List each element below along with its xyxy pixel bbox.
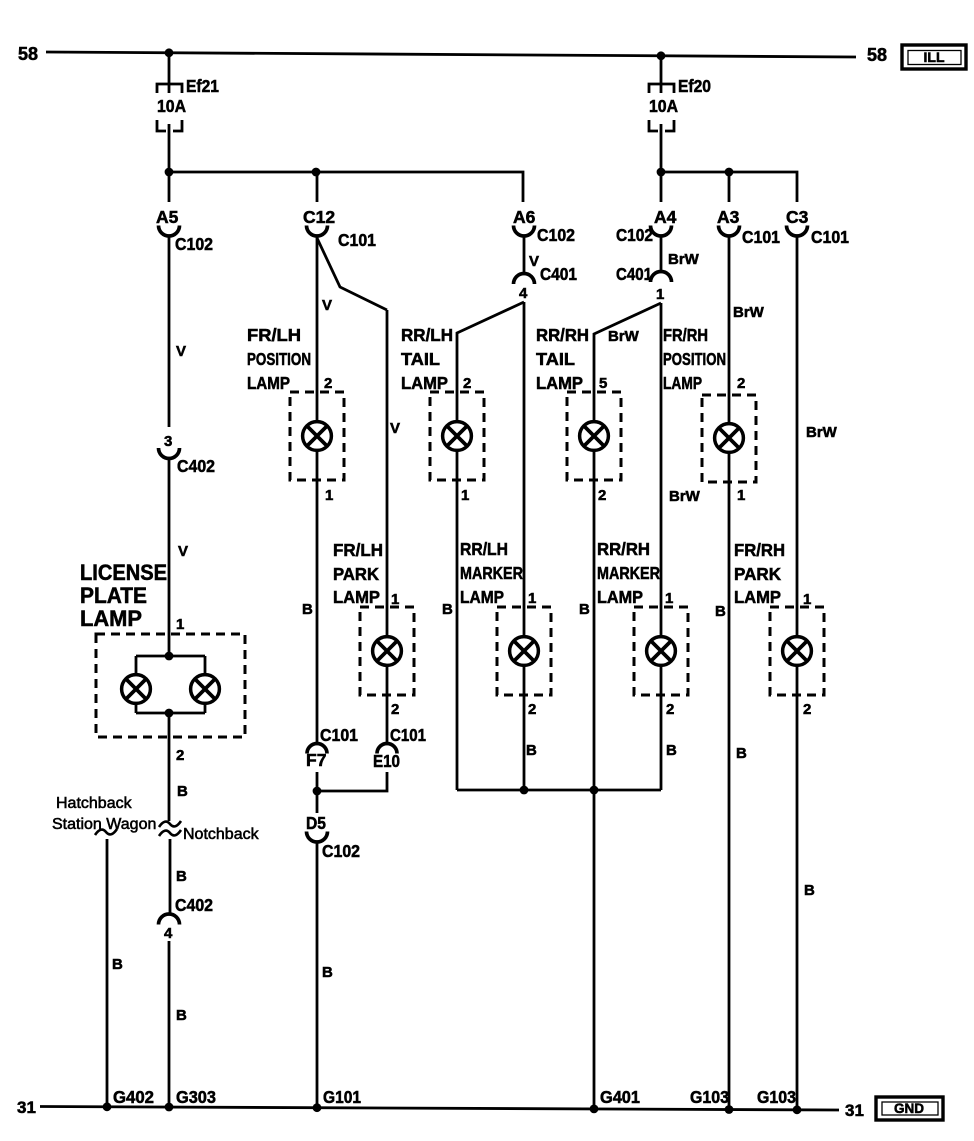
svg-text:E10: E10: [373, 751, 400, 771]
svg-text:A4: A4: [654, 207, 677, 227]
connector D5 C102: [306, 813, 360, 861]
lamp RR/LH MARKER LAMP: [497, 607, 551, 695]
junction bus/A5: [165, 168, 174, 177]
svg-text:10A: 10A: [157, 96, 186, 116]
svg-text:BrW: BrW: [669, 488, 701, 505]
lamp LICENSE PLATE LAMP label: [80, 560, 167, 631]
svg-text:BrW: BrW: [668, 251, 700, 268]
wire stub to C12: [316, 172, 319, 202]
svg-text:FR/RH: FR/RH: [663, 325, 708, 345]
lamp FR/LH PARK LAMP label: [333, 540, 383, 607]
svg-text:MARKER: MARKER: [460, 563, 523, 583]
svg-text:1: 1: [391, 591, 399, 608]
svg-text:C12: C12: [303, 207, 335, 227]
junction bus/G401 feed: [590, 786, 599, 795]
svg-text:V: V: [390, 420, 400, 437]
svg-text:LAMP: LAMP: [536, 373, 583, 393]
svg-text:POSITION: POSITION: [663, 349, 726, 369]
wire BrW from A3 to FR/RH position lamp: [728, 236, 731, 424]
svg-text:F7: F7: [306, 750, 326, 770]
svg-text:B: B: [715, 603, 726, 620]
wire B from RR/RH tail lamp: [593, 450, 596, 790]
ground G303: [165, 1087, 217, 1111]
junction bus/A3: [725, 168, 734, 177]
net box ILL: [902, 45, 966, 69]
svg-text:G103: G103: [690, 1087, 729, 1107]
svg-text:1: 1: [665, 590, 673, 607]
svg-text:4: 4: [519, 285, 528, 302]
svg-text:2: 2: [528, 701, 536, 718]
svg-text:A6: A6: [513, 207, 536, 227]
wire B from RR/RH marker lamp: [660, 665, 663, 790]
svg-text:B: B: [176, 868, 187, 885]
svg-text:1: 1: [656, 286, 664, 303]
wire bus right from Ef20: [661, 172, 797, 202]
svg-text:MARKER: MARKER: [597, 563, 660, 583]
svg-text:PARK: PARK: [734, 564, 781, 584]
lamp FR/RH PARK LAMP label: [734, 540, 785, 607]
svg-text:D5: D5: [306, 813, 326, 833]
svg-text:2: 2: [666, 701, 674, 718]
junction license lamp bottom: [165, 709, 174, 718]
svg-text:FR/LH: FR/LH: [333, 540, 383, 560]
svg-text:G401: G401: [600, 1087, 640, 1107]
wire stub to A4: [660, 172, 663, 202]
svg-text:2: 2: [598, 487, 606, 504]
lamp RR/LH TAIL LAMP label: [401, 325, 453, 393]
wire stub to A3: [728, 172, 731, 202]
lamp RR/LH MARKER LAMP label: [460, 539, 523, 607]
svg-text:2: 2: [737, 375, 745, 392]
connector A3 C101: [717, 207, 780, 247]
svg-text:G303: G303: [176, 1087, 216, 1107]
svg-text:PLATE: PLATE: [80, 583, 147, 608]
svg-text:Ef21: Ef21: [186, 76, 219, 96]
wire V from C12 to FR/LH position lamp: [316, 236, 319, 422]
wire bus 58 top rail: [46, 52, 856, 57]
wire V from A5: [168, 236, 171, 427]
svg-text:2: 2: [391, 701, 399, 718]
svg-text:B: B: [177, 783, 188, 800]
lamp FR/RH POSITION LAMP: [702, 395, 756, 482]
svg-text:C102: C102: [175, 234, 213, 254]
junction license lamp top: [165, 652, 174, 661]
svg-text:31: 31: [845, 1101, 864, 1120]
connector A5 C102: [156, 207, 213, 254]
svg-text:LAMP: LAMP: [597, 587, 643, 607]
junction bus/C12: [312, 168, 321, 177]
wire BrW from C3 to FR/RH park lamp: [796, 236, 799, 637]
connector A4 C102 / C401 pin 1: [616, 207, 700, 303]
wire B from FR/RH position lamp to G103: [728, 452, 731, 1111]
svg-text:C101: C101: [390, 725, 426, 745]
svg-text:FR/LH: FR/LH: [247, 325, 301, 345]
svg-text:FR/RH: FR/RH: [734, 540, 785, 560]
svg-text:B: B: [302, 601, 313, 618]
svg-text:RR/RH: RR/RH: [597, 539, 650, 559]
wire from A6-4 to RR/LH tail lamp: [457, 302, 524, 422]
wire B from FR/LH position lamp: [316, 450, 319, 744]
svg-text:B: B: [176, 1007, 187, 1024]
svg-text:1: 1: [176, 616, 184, 633]
wire bus 31 ground rail: [40, 1107, 839, 1111]
svg-text:LAMP: LAMP: [247, 373, 290, 393]
svg-text:POSITION: POSITION: [247, 349, 311, 369]
svg-text:G103: G103: [757, 1087, 796, 1107]
connector C3 C101: [786, 207, 849, 247]
svg-text:C3: C3: [786, 207, 809, 227]
wire from FR/LH park lamp to E10: [386, 665, 389, 744]
svg-text:B: B: [112, 956, 123, 973]
svg-text:PARK: PARK: [333, 564, 379, 584]
junction F7/E10: [313, 787, 322, 796]
svg-text:ILL: ILL: [924, 49, 945, 65]
wire B to G101: [316, 842, 319, 1109]
svg-text:C402: C402: [175, 895, 213, 915]
svg-text:LICENSE: LICENSE: [80, 560, 167, 585]
wire from A4-1 to RR/RH tail lamp: [594, 303, 661, 422]
svg-text:RR/LH: RR/LH: [460, 539, 508, 559]
wire branch hatchback/wagon to G402: [106, 839, 109, 1110]
lamp FR/RH PARK LAMP: [770, 607, 824, 695]
svg-text:2: 2: [803, 701, 811, 718]
connector E10 C101: [373, 725, 426, 771]
svg-text:GND: GND: [894, 1101, 924, 1116]
svg-text:C401: C401: [540, 264, 577, 284]
fuse Ef21 10A: [157, 53, 219, 172]
svg-text:1: 1: [461, 487, 469, 504]
svg-text:LAMP: LAMP: [734, 587, 781, 607]
svg-text:2: 2: [176, 747, 184, 764]
lamp LICENSE PLATE LAMP (dual bulb): [96, 634, 245, 737]
svg-text:2: 2: [463, 375, 471, 392]
wire stub to A5: [168, 172, 171, 202]
svg-text:V: V: [529, 253, 539, 270]
svg-text:B: B: [666, 742, 677, 759]
wire V to license plate lamp: [168, 459, 171, 657]
lamp FR/LH POSITION LAMP label: [247, 325, 311, 393]
svg-text:LAMP: LAMP: [460, 587, 504, 607]
lamp RR/RH MARKER LAMP: [634, 607, 688, 695]
wire from A6-4 to RR/LH marker lamp: [523, 302, 526, 637]
svg-text:1: 1: [803, 591, 811, 608]
wire F7 down: [316, 772, 319, 813]
svg-text:31: 31: [17, 1098, 36, 1117]
lamp RR/RH MARKER LAMP label: [597, 539, 660, 607]
wire V branch C12 to FR/LH park lamp: [317, 238, 387, 310]
svg-text:RR/LH: RR/LH: [401, 325, 453, 345]
wire B to G303: [168, 941, 171, 1108]
svg-text:1: 1: [737, 487, 745, 504]
svg-text:C102: C102: [322, 841, 360, 861]
svg-text:LAMP: LAMP: [80, 606, 142, 631]
wire B from FR/RH park lamp to G103: [796, 665, 799, 1111]
junction bus/A4: [657, 168, 666, 177]
lamp RR/RH TAIL LAMP: [567, 392, 621, 480]
wire bus left from Ef21: [169, 172, 523, 202]
svg-text:TAIL: TAIL: [536, 349, 575, 369]
svg-text:A3: A3: [717, 207, 740, 227]
lamp FR/RH POSITION LAMP label: [663, 325, 726, 393]
svg-text:G101: G101: [323, 1087, 361, 1107]
svg-text:C101: C101: [811, 227, 849, 247]
svg-text:58: 58: [18, 44, 38, 64]
svg-text:Hatchback: Hatchback: [56, 795, 133, 812]
junction top rail / Ef21: [165, 48, 174, 57]
connector C402 pin 4: [159, 895, 214, 942]
fuse Ef20 10A: [649, 56, 711, 172]
wire V down to park lamp: [386, 310, 389, 637]
svg-text:V: V: [322, 297, 332, 314]
svg-text:B: B: [322, 964, 333, 981]
net box GND: [876, 1097, 943, 1120]
junction top rail / Ef20: [657, 51, 666, 60]
ground G401: [590, 1087, 641, 1113]
svg-text:B: B: [736, 745, 747, 762]
lamp RR/RH TAIL LAMP label: [536, 325, 589, 393]
wire E10 to junction: [317, 772, 387, 791]
connector pin 3 C402: [159, 433, 216, 476]
wire bus rear lamps ground: [457, 789, 661, 792]
junction bus/RR-LH-marker: [520, 786, 529, 795]
svg-text:C101: C101: [338, 230, 376, 250]
svg-text:BrW: BrW: [608, 328, 640, 345]
svg-text:5: 5: [599, 375, 607, 392]
wire B from RR/LH tail lamp: [456, 450, 459, 790]
svg-text:C401: C401: [616, 264, 652, 284]
lamp RR/LH TAIL LAMP: [430, 392, 484, 480]
ground G402: [103, 1087, 155, 1111]
lamp FR/LH PARK LAMP: [360, 607, 414, 695]
svg-text:G402: G402: [113, 1087, 154, 1107]
svg-text:B: B: [526, 742, 537, 759]
connector F7 C101: [306, 725, 358, 770]
svg-text:TAIL: TAIL: [401, 349, 440, 369]
svg-text:BrW: BrW: [806, 424, 838, 441]
svg-text:LAMP: LAMP: [663, 373, 702, 393]
svg-text:C102: C102: [616, 225, 653, 245]
svg-text:V: V: [176, 343, 186, 360]
wire B below license lamp: [168, 713, 171, 821]
svg-text:B: B: [442, 601, 453, 618]
svg-text:B: B: [579, 601, 590, 618]
svg-text:C102: C102: [537, 225, 575, 245]
wire B to G401: [593, 790, 596, 1110]
svg-text:LAMP: LAMP: [401, 373, 448, 393]
svg-text:C101: C101: [742, 227, 780, 247]
connector A6 C102 / C401 pin 4: [513, 207, 577, 302]
svg-text:4: 4: [164, 925, 173, 942]
svg-text:C101: C101: [320, 725, 358, 745]
svg-text:Notchback: Notchback: [183, 826, 260, 843]
svg-text:A5: A5: [156, 207, 179, 227]
svg-text:C402: C402: [177, 456, 215, 476]
ground G101: [313, 1087, 362, 1112]
svg-text:V: V: [178, 543, 188, 560]
ground G103 (position lamp): [690, 1087, 733, 1114]
connector C12 C101: [303, 207, 376, 250]
svg-text:LAMP: LAMP: [333, 587, 380, 607]
svg-text:10A: 10A: [649, 96, 678, 116]
svg-text:2: 2: [324, 375, 332, 392]
svg-text:58: 58: [867, 45, 887, 65]
wire from A4-1 to RR/RH marker lamp: [660, 303, 663, 637]
svg-text:B: B: [804, 882, 815, 899]
svg-text:Ef20: Ef20: [678, 76, 711, 96]
svg-text:1: 1: [528, 590, 536, 607]
ground G103 (park lamp): [757, 1087, 801, 1114]
lamp FR/LH POSITION LAMP: [290, 392, 344, 480]
svg-text:3: 3: [164, 433, 172, 450]
svg-text:BrW: BrW: [733, 304, 765, 321]
svg-text:1: 1: [325, 487, 333, 504]
wire B from RR/LH marker lamp: [523, 665, 526, 790]
svg-text:RR/RH: RR/RH: [536, 325, 589, 345]
wire notchback below split: [169, 839, 172, 914]
option split Hatchback / Station Wagon / Notchback: [52, 795, 260, 843]
